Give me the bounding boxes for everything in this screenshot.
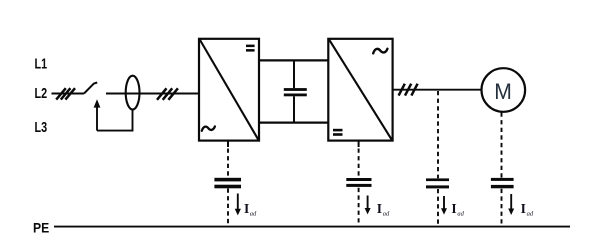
leakage current label I_ad 2 <box>377 201 390 218</box>
leakage current arrow 2 <box>365 196 371 215</box>
three-phase slash marks group 3 <box>399 84 418 96</box>
svg-text:ad: ad <box>457 211 464 218</box>
leakage path 2 stub <box>358 141 360 148</box>
leakage current arrow 3 <box>441 196 447 215</box>
leakage path 2 dashed lower <box>358 188 360 226</box>
leakage path 1 dashed upper <box>227 149 229 178</box>
svg-text:L1: L1 <box>35 56 48 73</box>
svg-text:ad: ad <box>527 211 534 218</box>
inverter U2 AC symbol (~) <box>373 49 387 54</box>
DC bus bottom wire <box>259 121 328 123</box>
wire from switch to rectifier <box>106 93 199 95</box>
leakage path 1 stub <box>227 141 229 148</box>
motor cable wire <box>393 89 482 91</box>
DC bus top wire <box>259 59 328 61</box>
leakage path 1 dashed lower <box>227 189 229 226</box>
wire L2 input segment <box>52 93 85 95</box>
svg-text:PE: PE <box>33 219 49 235</box>
DC link capacitor C1 plates <box>284 88 307 96</box>
switch S1 blade (open disconnect) <box>84 83 97 94</box>
parasitic capacitor Cp2 plates <box>346 178 371 187</box>
svg-text:I: I <box>244 201 249 216</box>
motor M1 circle <box>482 68 526 112</box>
parasitic capacitor Cp4 plates <box>491 178 514 188</box>
rectifier U1 DC symbol (=) <box>246 45 255 52</box>
current transformer T1 (ellipse) <box>126 76 140 110</box>
leakage path 4 dashed upper <box>501 113 503 178</box>
measurement loop wire <box>97 109 133 130</box>
svg-text:M: M <box>494 79 512 104</box>
leakage current arrow 4 <box>508 194 514 215</box>
rectifier U1 AC symbol (~) <box>202 126 215 130</box>
rectifier U1 diagonal <box>200 40 259 140</box>
PE ground bus wire <box>54 226 570 228</box>
measurement loop up-arrow <box>94 99 101 130</box>
leakage path 3 dashed upper <box>437 91 439 178</box>
leakage path 3 dashed lower <box>437 189 439 226</box>
leakage current label I_ad 3 <box>451 201 464 218</box>
svg-text:L2: L2 <box>35 85 48 102</box>
inverter U2 DC symbol (=) <box>333 129 343 136</box>
leakage path 2 dashed upper <box>358 149 360 178</box>
parasitic capacitor Cp3 plates <box>426 178 449 188</box>
leakage path 4 dashed lower <box>501 189 503 226</box>
three-phase slash marks group 1 <box>56 88 75 99</box>
leakage current arrow 1 <box>235 194 241 216</box>
inverter U2 box <box>328 39 392 141</box>
svg-text:I: I <box>521 201 526 216</box>
svg-text:I: I <box>451 201 456 216</box>
leakage current label I_ad 1 <box>244 201 257 218</box>
svg-text:ad: ad <box>250 210 257 217</box>
svg-text:I: I <box>377 201 382 216</box>
svg-text:L3: L3 <box>35 119 48 136</box>
DC link capacitor C1 lead top <box>293 61 295 88</box>
DC link capacitor C1 lead bottom <box>293 96 295 122</box>
parasitic capacitor Cp1 plates <box>214 178 241 189</box>
svg-text:ad: ad <box>383 211 390 218</box>
rectifier U1 box <box>199 39 259 141</box>
leakage current label I_ad 4 <box>521 201 534 218</box>
three-phase slash marks group 2 <box>157 88 178 100</box>
inverter U2 diagonal <box>329 40 392 140</box>
